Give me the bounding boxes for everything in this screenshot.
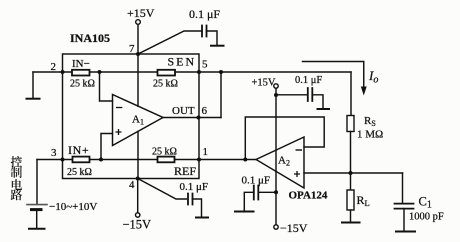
battery E1 short plate — [32, 208, 42, 211]
ground (C2) — [211, 45, 224, 47]
svg-text:7: 7 — [129, 43, 135, 55]
wire pin6 up to pin5 row — [220, 72, 222, 118]
symbol A1 plus — [116, 129, 122, 135]
wire node row A2+ to C1 — [304, 172, 403, 174]
text 控 (kong) — [11, 156, 22, 167]
capacitor C2 plates (0.1uF top) — [202, 26, 207, 37]
junction node B — [98, 70, 102, 74]
wire pin4 to cap C3 diagonal — [138, 179, 187, 200]
junction +15V A2 — [274, 93, 278, 97]
svg-text:2: 2 — [51, 61, 57, 73]
svg-text:−15V: −15V — [123, 218, 152, 232]
ground (C3) — [196, 217, 208, 219]
wire node B to A1 inverting input — [100, 72, 113, 101]
svg-text:25 kΩ: 25 kΩ — [153, 79, 178, 90]
text 制 (zhi) — [11, 167, 22, 178]
svg-text:0.1 μF: 0.1 μF — [295, 75, 322, 86]
text 电 (dian) — [12, 179, 22, 190]
wire Rs to node row — [350, 132, 352, 174]
wire -15V to cap C5 — [260, 191, 277, 193]
wire C3 to ground — [193, 199, 202, 217]
wire node down to RL — [350, 173, 352, 190]
op-amp A1 triangle — [113, 95, 164, 146]
svg-text:25 kΩ: 25 kΩ — [67, 167, 92, 178]
junction -15V A2 — [274, 190, 278, 194]
svg-text:OUT: OUT — [172, 105, 195, 117]
svg-text:−15V: −15V — [280, 221, 308, 235]
junction pin4 — [136, 177, 140, 181]
wire C5 to ground — [244, 192, 254, 211]
junction node C — [99, 158, 103, 162]
junction pin7 — [136, 52, 140, 56]
wire pin2 to SEN output row right — [199, 71, 351, 73]
op-amp U1 box (INA105 outline) — [63, 54, 200, 179]
svg-text:3: 3 — [51, 147, 57, 159]
wire battery stem — [36, 160, 38, 205]
wire C1 to ground — [403, 209, 405, 232]
junction output node — [349, 171, 353, 175]
text 路 (lu) — [11, 189, 23, 200]
svg-text:INA105: INA105 — [70, 31, 110, 45]
wire +15V to pin7 — [137, 25, 139, 55]
terminal -15V A2 circle — [274, 225, 278, 229]
svg-text:0.1 μF: 0.1 μF — [242, 175, 271, 187]
wire output row down to Rs — [350, 72, 352, 116]
svg-text:OPA124: OPA124 — [289, 190, 328, 202]
svg-text:0.1 μF: 0.1 μF — [180, 181, 209, 193]
wire C1 drop — [402, 173, 404, 203]
svg-text:REF: REF — [174, 164, 196, 178]
resistor R4 body (REF 25k) — [158, 157, 175, 163]
capacitor C4 plates (0.1uF A2 +15V) — [308, 88, 313, 101]
svg-text:+15V: +15V — [252, 78, 276, 89]
wire A2 feedback loop — [245, 117, 324, 160]
wire left ground stem — [32, 72, 34, 99]
wire A1 output to pin6 — [163, 117, 221, 119]
wire pin1 REF to A2 output — [199, 159, 256, 161]
wire pin2 row (IN- row, y=72) — [33, 71, 199, 73]
op-amp A2 triangle (output on left) — [256, 137, 304, 188]
capacitor C5 plates (0.1uF A2 -15V) — [254, 186, 258, 200]
svg-text:SEN: SEN — [168, 55, 197, 69]
symbol A2 plus — [294, 171, 300, 177]
arrow Io head — [361, 87, 367, 96]
wire node C to A1 non-inverting input — [101, 134, 113, 160]
ground (C4) — [318, 108, 330, 110]
ground (C1) — [396, 231, 415, 233]
capacitor C1 plates — [395, 204, 414, 209]
wire A1 V- to pin4 — [137, 131, 139, 178]
ground (battery) — [29, 228, 45, 230]
junction pin3 — [61, 158, 65, 162]
junction pin6 — [197, 116, 201, 120]
junction pin6-pin5 tie — [219, 70, 223, 74]
terminal -15V circle (pin4) — [136, 213, 140, 217]
svg-text:IN−: IN− — [72, 58, 90, 70]
wire +15V A2 terminal — [275, 88, 277, 95]
wire C2 to ground — [207, 31, 218, 46]
resistor R2 body (SEN 25k) — [158, 70, 176, 76]
symbol A1 minus — [116, 107, 122, 109]
arrow Io annotation — [303, 62, 364, 88]
svg-text:1 MΩ: 1 MΩ — [357, 129, 383, 141]
svg-text:0.1 μF: 0.1 μF — [189, 7, 220, 21]
svg-text:IN+: IN+ — [68, 143, 89, 157]
svg-text:1: 1 — [203, 146, 209, 158]
svg-text:+15V: +15V — [127, 6, 155, 20]
ground (C5) — [235, 211, 254, 213]
wire pin7 to decoupling cap C2 diagonal — [138, 31, 201, 54]
wire pin3 row (IN+ row, y=159.5) — [37, 159, 199, 161]
svg-text:5: 5 — [202, 59, 208, 71]
svg-text:25 kΩ: 25 kΩ — [70, 79, 95, 90]
resistor RS body — [347, 116, 354, 132]
ground (RL) — [342, 222, 360, 224]
svg-text:6: 6 — [202, 105, 208, 117]
wire A2 -15V — [275, 192, 277, 225]
svg-text:1000 pF: 1000 pF — [409, 212, 444, 223]
capacitor C3 plates (0.1uF pin4) — [188, 194, 193, 205]
wire pin7 V+ inside box to A1 — [137, 54, 139, 106]
junction pin2 — [61, 70, 65, 74]
terminal +15V top circle — [136, 20, 141, 25]
terminal +15V A2 circle — [274, 84, 278, 88]
ground (left, IN-) — [27, 98, 40, 100]
junction pin1 — [197, 158, 201, 162]
wire pin4 to -15V — [137, 179, 139, 213]
junction pin5 — [197, 70, 201, 74]
battery E1 long plate — [27, 204, 47, 206]
resistor R1 body (IN- 25k) — [72, 70, 90, 76]
junction A2 feedback — [243, 158, 247, 162]
symbol A2 minus — [296, 149, 303, 151]
resistor R3 body (IN+ 25k) — [73, 157, 90, 163]
wire A2 V+ / V- power line — [275, 95, 277, 192]
wire RL to ground — [350, 210, 352, 222]
wire battery to ground — [36, 211, 38, 229]
svg-text:−10~+10V: −10~+10V — [49, 201, 97, 213]
wire C4 to ground — [312, 95, 323, 109]
wire +15V to cap C4 — [276, 94, 307, 96]
resistor RL body — [347, 190, 354, 210]
svg-text:4: 4 — [129, 179, 135, 191]
svg-text:25 kΩ: 25 kΩ — [152, 147, 177, 158]
